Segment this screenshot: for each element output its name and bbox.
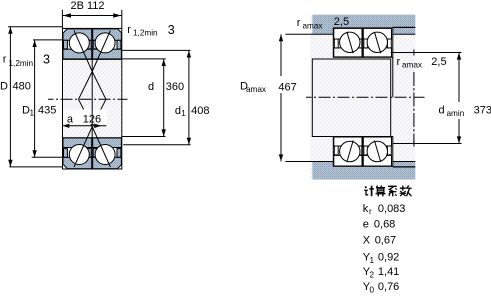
svg-text:0,92: 0,92 <box>378 251 399 263</box>
svg-text:X: X <box>363 235 371 247</box>
bearing outline box (left view) <box>63 28 122 169</box>
bearing pair joint line <box>91 28 93 169</box>
ring chamfer cuts at bearing corners <box>63 29 122 169</box>
svg-text:0: 0 <box>370 285 375 294</box>
svg-text:1,2min: 1,2min <box>133 29 158 38</box>
table row e 0,68 <box>363 219 396 231</box>
svg-text:467: 467 <box>278 82 296 94</box>
dimension d_amin 373 <box>439 53 491 144</box>
svg-text:0,67: 0,67 <box>375 235 396 247</box>
svg-text:408: 408 <box>191 105 209 117</box>
svg-text:360: 360 <box>166 81 184 93</box>
table row Y1 0,92 <box>363 251 400 265</box>
table row Y2 1,41 <box>363 266 400 280</box>
svg-text:amin: amin <box>447 109 465 118</box>
contact-angle lines upper X <box>74 31 110 72</box>
svg-text:amax: amax <box>303 22 323 31</box>
svg-text:2B 112: 2B 112 <box>71 0 105 12</box>
bore line of lower section <box>63 137 122 139</box>
svg-text:0,083: 0,083 <box>378 203 406 215</box>
bearing half-section upper-left: outer ring, inner ring, cage bars, ball <box>63 29 92 59</box>
dimension D1 435 <box>22 40 63 157</box>
svg-text:r: r <box>369 207 372 216</box>
label r_amax 2,5 (housing) <box>297 16 349 31</box>
centerline (right view) <box>306 96 425 98</box>
svg-text:3: 3 <box>168 23 175 37</box>
mounted bearing lower section (outline): rings, cage bars, balls, contact lines <box>333 137 393 167</box>
svg-text:r: r <box>127 24 131 36</box>
svg-text:a: a <box>67 114 74 126</box>
svg-text:1,2min: 1,2min <box>9 59 34 68</box>
svg-text:amax: amax <box>402 61 422 70</box>
svg-text:amax: amax <box>246 85 266 94</box>
svg-text:1: 1 <box>181 109 186 118</box>
svg-text:d: d <box>439 105 445 117</box>
bearing half-section upper-right: outer ring, inner ring, cage bars, ball <box>93 29 122 59</box>
svg-text:3: 3 <box>43 53 50 67</box>
table row k_r 0,083 <box>363 203 406 216</box>
svg-text:1: 1 <box>30 109 35 118</box>
svg-text:373: 373 <box>474 105 491 117</box>
svg-text:126: 126 <box>83 114 101 126</box>
svg-text:2,5: 2,5 <box>334 16 349 28</box>
mounted bearing upper section (outline): rings, cage bars, balls, contact lines <box>333 28 393 57</box>
dimension 2B 112 <box>62 0 121 28</box>
svg-text:D: D <box>0 81 8 93</box>
centerline (left view) <box>48 98 128 100</box>
contact-angle diamond between rows <box>79 72 106 127</box>
dimension D 480 <box>0 27 63 167</box>
dimension d 360 <box>122 59 184 137</box>
svg-text:r: r <box>397 56 401 68</box>
dimension r_amax 2,5 (shaft fillet) <box>391 50 462 147</box>
dimension d1 408 <box>122 50 210 144</box>
bearing half-section lower-right: inner ring, outer ring, cage bars, ball <box>93 138 122 169</box>
housing lower section <box>285 162 415 180</box>
svg-text:435: 435 <box>38 105 56 117</box>
svg-text:0,76: 0,76 <box>378 281 399 293</box>
svg-text:2,5: 2,5 <box>431 56 446 68</box>
svg-text:1,41: 1,41 <box>378 266 399 278</box>
table row X 0,67 <box>363 235 396 247</box>
svg-text:0,68: 0,68 <box>374 219 395 231</box>
label r1,2min 3 (left side) <box>3 53 50 68</box>
svg-text:k: k <box>363 203 369 215</box>
table row Y0 0,76 <box>363 281 400 295</box>
bore line of upper section <box>63 58 122 60</box>
bearing interior hatching (left view) <box>63 28 122 169</box>
bearing face extension line <box>392 57 394 97</box>
svg-text:d: d <box>175 105 181 117</box>
svg-text:2: 2 <box>370 270 375 279</box>
svg-text:e: e <box>363 219 369 231</box>
label r1,2min 3 (right side) <box>127 23 175 38</box>
bearing half-section lower-left: inner ring, outer ring, cage bars, ball <box>63 138 92 169</box>
dimension a 126 <box>63 110 108 129</box>
svg-text:r: r <box>297 17 301 29</box>
housing upper section <box>285 15 415 35</box>
dimension D_amax 467 <box>240 34 297 161</box>
table title (Chinese: calculation factors) drawn as strokes <box>364 186 411 197</box>
shaft <box>312 59 390 137</box>
svg-text:r: r <box>3 54 7 66</box>
contact-angle lines lower X <box>74 127 110 167</box>
svg-text:d: d <box>148 81 154 93</box>
housing/shaft hatching zone (right view) <box>310 15 415 179</box>
svg-text:1: 1 <box>370 256 375 265</box>
svg-text:480: 480 <box>13 81 31 93</box>
